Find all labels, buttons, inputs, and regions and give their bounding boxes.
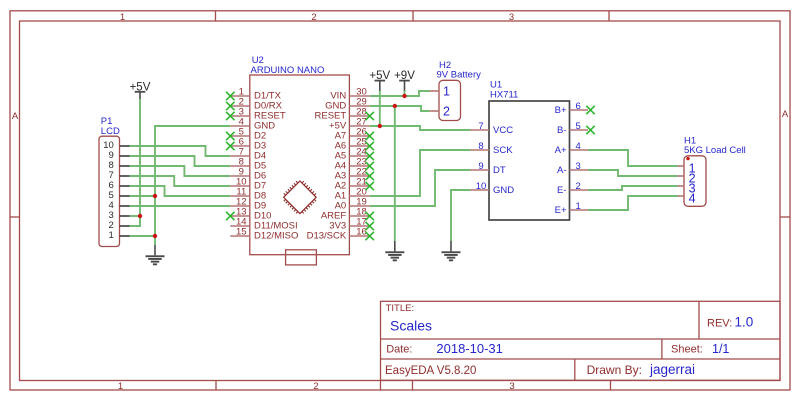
wire P1.5 to GND rail: [130, 195, 156, 197]
U1 pin 4 A+: [555, 141, 588, 156]
svg-text:2: 2: [313, 381, 318, 392]
H1 pin 3: [678, 181, 696, 195]
power +5V symbol left: [130, 81, 151, 99]
wire P1.9 to U2 D5: [130, 156, 231, 166]
U2 pin 14 D11/MOSI: [230, 217, 297, 232]
title block Date label: [386, 343, 412, 355]
svg-text:3: 3: [509, 381, 514, 392]
no-connect U2 pin 3: [226, 112, 234, 120]
junction P1.1 GND: [153, 234, 157, 238]
no-connect U1 B-: [586, 126, 594, 134]
title block Drawn By label: [587, 363, 642, 377]
svg-text:1: 1: [120, 12, 125, 23]
wire U2 A1 to U1 SCK: [370, 150, 471, 196]
no-connect U2 pin 6: [226, 142, 234, 150]
svg-text:B+: B+: [555, 105, 567, 116]
label H2 refdes: [439, 60, 451, 71]
wire +5V stem left: [139, 99, 141, 216]
svg-text:EasyEDA V5.8.20: EasyEDA V5.8.20: [385, 365, 476, 377]
no-connect U2 pin 26: [366, 132, 374, 140]
svg-text:VCC: VCC: [493, 125, 513, 136]
svg-text:REV:: REV:: [707, 317, 732, 329]
H1 pin 1: [678, 161, 696, 175]
U1 pin 6 B+: [555, 101, 588, 116]
wire P1.1 to GND rail: [130, 235, 156, 237]
svg-text:4: 4: [576, 141, 581, 152]
H1 origin dot: [686, 157, 689, 160]
U2 pin 24 A5: [335, 147, 370, 162]
P1 pin 2: [109, 220, 130, 231]
U2 pin 4 GND: [230, 117, 275, 132]
U1 pin 2 E-: [557, 181, 588, 196]
wire P1.2 to +5V: [130, 216, 141, 226]
U2 pin 23 A4: [335, 157, 370, 172]
wire GND drop middle: [394, 106, 396, 241]
label H1 refdes: [684, 136, 696, 147]
U2 pin 21 A2: [335, 177, 370, 192]
title block rev value: [735, 315, 754, 330]
label P1 value LCD: [101, 126, 120, 137]
svg-text:TITLE:: TITLE:: [386, 303, 415, 314]
P1 pin 5: [109, 190, 130, 201]
title block TITLE label: [386, 303, 415, 314]
U2 pin 17 3V3: [329, 217, 369, 232]
no-connect U2 pin 17: [366, 222, 374, 230]
wire U2 GND rail vertical: [155, 126, 230, 245]
svg-text:A: A: [782, 109, 789, 120]
title block REV label: [707, 317, 732, 329]
title block date value: [436, 341, 503, 356]
svg-text:8: 8: [478, 141, 483, 152]
connector H2 body: [439, 80, 461, 120]
label H1 value 5KG Load Cell: [684, 145, 746, 156]
U1 pin 7 VCC: [471, 121, 514, 136]
wire U1 GND to ground: [451, 190, 471, 241]
connector P1 body: [99, 136, 120, 246]
IC U1 body: [489, 101, 570, 220]
P1 pin 10: [103, 140, 129, 151]
wire P1.7 to U2 D7: [130, 176, 231, 186]
svg-text:DT: DT: [493, 165, 506, 176]
svg-text:5KG Load Cell: 5KG Load Cell: [684, 145, 746, 156]
H1 pin 4: [678, 191, 696, 205]
svg-text:jagerrai: jagerrai: [649, 362, 695, 377]
no-connect U2 pin 18: [366, 212, 374, 220]
svg-text:9V Battery: 9V Battery: [437, 70, 482, 81]
U1 pin 8 SCK: [471, 141, 514, 156]
junction VIN +9V: [402, 94, 406, 98]
title block EasyEDA version: [385, 365, 476, 377]
wire +9V stem: [404, 90, 406, 96]
ground symbol left: [146, 245, 165, 265]
wire U1 E+ to H1.4: [588, 196, 678, 210]
svg-text:Sheet:: Sheet:: [671, 343, 703, 355]
title block Sheet label: [671, 343, 703, 355]
svg-text:1.0: 1.0: [735, 315, 754, 330]
svg-text:3: 3: [576, 161, 581, 172]
svg-text:4: 4: [689, 191, 696, 205]
svg-text:1: 1: [109, 230, 114, 241]
U2 pin 5 D2: [230, 127, 266, 142]
svg-text:2018-10-31: 2018-10-31: [436, 341, 503, 356]
U1 pin 10 GND: [471, 181, 515, 196]
svg-text:E-: E-: [557, 185, 567, 196]
svg-text:7: 7: [478, 121, 483, 132]
title block sheet value: [712, 342, 729, 356]
U2 pin 3 RESET: [230, 107, 286, 122]
svg-text:SCK: SCK: [493, 145, 513, 156]
power +9V symbol: [394, 70, 415, 90]
svg-text:2: 2: [576, 181, 581, 192]
U1 pin 5 B-: [557, 121, 588, 136]
junction P1.3 +5V: [138, 214, 142, 218]
svg-text:B-: B-: [557, 125, 567, 136]
wire P1.4 to U2 D9: [130, 205, 231, 207]
svg-text:9: 9: [478, 161, 483, 172]
label U1 value HX711: [490, 90, 518, 101]
wire +5V stem mid: [379, 90, 381, 126]
U2 pin 27 +5V: [329, 117, 370, 132]
wire P1.8 to U2 D6: [130, 166, 231, 176]
U2 pin 12 D9: [230, 197, 266, 212]
label U1 refdes: [490, 80, 502, 91]
ground symbol right: [442, 241, 461, 261]
U1 pin 1 E+: [555, 201, 588, 216]
U2 pin 30 VIN: [330, 87, 369, 102]
wire P1.3 to +5V: [130, 215, 141, 217]
U2 pin 9 D6: [230, 167, 266, 182]
connector H1 body: [684, 156, 706, 207]
svg-text:E+: E+: [555, 205, 567, 216]
svg-text:1: 1: [118, 381, 123, 392]
U2 pin 11 D8: [230, 187, 266, 202]
U2 pin 18 AREF: [321, 207, 370, 222]
no-connect U2 pin 2: [226, 102, 234, 110]
ground symbol middle: [385, 241, 404, 261]
wire U2 +5V to U1 VCC: [370, 126, 471, 130]
wire P1.10 to U2 D4: [130, 146, 231, 156]
svg-text:Drawn By:: Drawn By:: [587, 363, 642, 377]
no-connect U2 pin 13: [226, 212, 234, 220]
U2 pin 29 GND: [325, 97, 370, 112]
svg-text:1: 1: [576, 201, 581, 212]
IC U2 body: [250, 75, 350, 255]
U2 pin 15 D12/MISO: [230, 227, 298, 242]
U2 pin 10 D7: [230, 177, 266, 192]
no-connect U2 pin 1: [226, 92, 234, 100]
svg-text:ARDUINO NANO: ARDUINO NANO: [251, 65, 325, 76]
svg-text:HX711: HX711: [490, 90, 518, 101]
wire U1 E- to H1.3: [588, 186, 678, 190]
wire P1.6 to U2 D8: [130, 186, 231, 196]
U2 pin 26 A7: [335, 127, 370, 142]
label H2 value 9V Battery: [437, 70, 482, 81]
no-connect U2 pin 22: [366, 172, 374, 180]
svg-text:2: 2: [311, 12, 316, 23]
U2 pin 20 A1: [335, 187, 370, 202]
P1 pin 9: [109, 150, 130, 161]
no-connect U2 pin 23: [366, 162, 374, 170]
U2 pin 28 RESET: [315, 107, 370, 122]
U2 pin 25 A6: [335, 137, 370, 152]
U2 pin 8 D5: [230, 157, 266, 172]
label U2 value ARDUINO NANO: [251, 65, 325, 76]
svg-text:15: 15: [236, 227, 247, 238]
title block frame: [381, 301, 781, 390]
no-connect U2 pin 25: [366, 142, 374, 150]
svg-text:1: 1: [443, 84, 450, 98]
svg-text:3: 3: [509, 12, 514, 23]
title block title Scales: [390, 317, 432, 333]
svg-text:GND: GND: [493, 185, 514, 196]
wire U2 VIN to H2.1 +9V: [370, 91, 430, 96]
wire U1 A+ to H1.1: [588, 150, 678, 166]
U1 pin 3 A-: [557, 161, 588, 176]
svg-text:D13/SCK: D13/SCK: [307, 231, 347, 242]
svg-text:Date:: Date:: [386, 343, 412, 355]
svg-text:6: 6: [576, 101, 581, 112]
no-connect U2 pin 28: [366, 112, 374, 120]
H2 pin 1: [430, 84, 450, 98]
no-connect U2 pin 21: [366, 182, 374, 190]
U2 pin 6 D3: [230, 137, 266, 152]
svg-text:A: A: [12, 111, 19, 122]
H1 pin 2: [678, 171, 696, 185]
U2 chip diamond graphic: [284, 181, 317, 214]
P1 pin 6: [109, 180, 130, 191]
P1 pin 4: [109, 200, 130, 211]
U1 pin 9 DT: [471, 161, 506, 176]
U2 usb connector graphic: [286, 250, 317, 265]
junction +5V27: [378, 124, 382, 128]
svg-text:5: 5: [576, 121, 581, 132]
svg-text:10: 10: [476, 181, 487, 192]
U2 pin 2 D0/RX: [230, 97, 282, 112]
svg-text:D12/MISO: D12/MISO: [254, 231, 298, 242]
label P1 refdes: [101, 116, 113, 127]
svg-text:A+: A+: [555, 145, 567, 156]
title block author jagerrai: [649, 362, 695, 377]
svg-text:1/1: 1/1: [712, 342, 729, 356]
label U2 refdes: [252, 55, 264, 66]
P1 pin 3: [109, 210, 130, 221]
wire U2 A0 to U1 DT: [370, 170, 471, 206]
wire U2 GND to H2.2: [370, 106, 430, 111]
U2 pin 19 A0: [335, 197, 370, 212]
svg-text:Scales: Scales: [390, 317, 432, 333]
H2 pin 2: [430, 104, 450, 118]
wire U1 A- to H1.2: [588, 170, 678, 176]
no-connect U2 pin 16: [366, 232, 374, 240]
U2 pin 7 D4: [230, 147, 266, 162]
svg-text:2: 2: [443, 104, 450, 118]
junction P1.5 GND: [153, 194, 157, 198]
no-connect U2 pin 24: [366, 152, 374, 160]
junction GND29: [393, 104, 397, 108]
no-connect U2 pin 5: [226, 132, 234, 140]
P1 pin 8: [109, 160, 130, 171]
U2 pin 16 D13/SCK: [307, 227, 370, 242]
P1 pin 1: [109, 230, 130, 241]
svg-text:LCD: LCD: [101, 126, 120, 137]
P1 pin 7: [109, 170, 130, 181]
U2 pin 13 D10: [230, 207, 271, 222]
U2 pin 1 D1/TX: [230, 87, 281, 102]
svg-text:A-: A-: [557, 165, 567, 176]
U2 pin 22 A3: [335, 167, 370, 182]
svg-text:16: 16: [356, 227, 367, 238]
power +5V symbol mid: [369, 70, 390, 90]
no-connect U1 B+: [586, 106, 594, 114]
